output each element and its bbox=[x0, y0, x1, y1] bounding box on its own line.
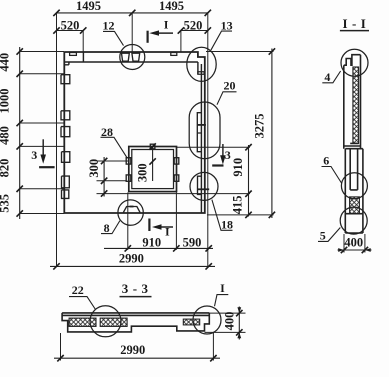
callout circle 13 bbox=[187, 47, 216, 81]
left edge notch 1 bbox=[61, 75, 70, 84]
callout circle 22 bbox=[90, 306, 121, 337]
dimension 3275 bbox=[253, 48, 276, 218]
svg-text:2990: 2990 bbox=[120, 343, 145, 357]
svg-text:28: 28 bbox=[101, 125, 113, 139]
dimension 520 right bbox=[178, 18, 211, 52]
dimension 910 590 bottom bbox=[104, 235, 213, 251]
callout circle 4 bbox=[341, 49, 368, 76]
dimension 300 inside opening bbox=[135, 143, 156, 182]
opening plate top bbox=[150, 144, 155, 149]
right dimension column 910 415 bbox=[231, 144, 252, 218]
extension row top right bbox=[206, 51, 274, 53]
svg-text:300: 300 bbox=[87, 159, 101, 178]
svg-text:I: I bbox=[164, 18, 169, 32]
svg-text:1495: 1495 bbox=[76, 0, 101, 13]
title I - I bbox=[340, 16, 369, 31]
label 18 bbox=[212, 200, 233, 232]
hatch block 3-3 left a bbox=[69, 318, 96, 326]
callout circle 6 bbox=[341, 173, 367, 199]
svg-text:400: 400 bbox=[223, 312, 237, 331]
extension row bottom right bbox=[207, 214, 274, 216]
label 20 bbox=[217, 79, 237, 105]
left edge notch 2 bbox=[61, 111, 70, 120]
svg-text:480: 480 bbox=[0, 126, 12, 145]
dimension 520 left bbox=[53, 18, 86, 52]
extension row long 193 bbox=[97, 193, 251, 195]
svg-text:3 - 3: 3 - 3 bbox=[122, 281, 149, 296]
section marker 3 left bbox=[31, 139, 54, 167]
bottom edge recess in detail 8 bbox=[123, 207, 140, 213]
svg-text:1000: 1000 bbox=[0, 89, 12, 114]
svg-text:520: 520 bbox=[61, 18, 80, 32]
corner plate top-right bbox=[198, 72, 204, 74]
extension opening right down bbox=[175, 193, 177, 250]
svg-text:8: 8 bbox=[104, 221, 110, 235]
dimension 400 section 3-3 bbox=[205, 307, 246, 340]
left edge notch 6 bbox=[62, 190, 69, 199]
dimension 300 left of opening bbox=[87, 157, 129, 197]
section marker I bottom bbox=[149, 219, 173, 239]
extension line mid top bbox=[131, 13, 133, 52]
svg-text:I: I bbox=[220, 281, 225, 295]
opening plate left upper bbox=[126, 158, 131, 164]
svg-text:520: 520 bbox=[184, 18, 203, 32]
label 13 bbox=[211, 19, 233, 51]
label 8 bbox=[101, 221, 120, 235]
svg-text:820: 820 bbox=[0, 159, 12, 178]
left dimension column 440 1000 480 820 535 bbox=[0, 47, 23, 219]
svg-text:590: 590 bbox=[183, 235, 202, 249]
callout circle 12 bbox=[120, 45, 145, 70]
callout circle 5 bbox=[340, 207, 367, 234]
svg-text:910: 910 bbox=[231, 158, 245, 177]
left extension rows bbox=[20, 52, 65, 214]
extension row 910 top bbox=[177, 146, 251, 148]
panel outline (plan) bbox=[64, 52, 205, 213]
svg-text:I - I: I - I bbox=[343, 16, 367, 31]
channel tick bold in detail 20 bbox=[197, 124, 206, 126]
left edge notch 4 bbox=[62, 152, 70, 163]
opening plate right upper bbox=[174, 158, 179, 164]
svg-text:22: 22 bbox=[72, 283, 84, 297]
svg-text:440: 440 bbox=[0, 53, 11, 72]
section marker 3 right bbox=[212, 144, 231, 166]
anchor plate a in detail 12 bbox=[122, 53, 130, 61]
svg-text:415: 415 bbox=[231, 196, 245, 215]
opening square outer bbox=[129, 147, 177, 192]
bottom recess nub bbox=[130, 206, 134, 208]
top edge plate left bbox=[70, 53, 77, 56]
dimension 2990 plan bbox=[50, 251, 215, 269]
dimension 1495 + 1495 top bbox=[53, 0, 211, 16]
dimension 400 I-I bbox=[338, 234, 372, 253]
anchor plate b in detail 12 bbox=[132, 53, 140, 61]
right edge channel in detail 20 bbox=[197, 113, 201, 152]
label I bottom right bbox=[215, 281, 229, 306]
svg-text:13: 13 bbox=[221, 19, 233, 33]
svg-text:18: 18 bbox=[221, 217, 233, 231]
extension line left vertical bbox=[56, 13, 58, 267]
right edge channel in detail 18 bbox=[198, 176, 202, 194]
insulation hatch strip I-I bbox=[353, 67, 359, 143]
title 3 - 3 bbox=[120, 281, 152, 297]
opening plate left lower bbox=[126, 175, 131, 181]
opening square inner bbox=[132, 150, 174, 189]
extension opening left down bbox=[127, 193, 129, 250]
callout circle 18 bbox=[190, 172, 218, 200]
svg-text:3: 3 bbox=[31, 148, 37, 162]
svg-text:400: 400 bbox=[344, 236, 363, 250]
svg-text:910: 910 bbox=[142, 235, 161, 249]
extension line right vertical bbox=[207, 13, 209, 267]
label 6 bbox=[322, 154, 342, 184]
svg-text:3: 3 bbox=[225, 148, 231, 162]
svg-text:535: 535 bbox=[0, 194, 12, 213]
svg-text:6: 6 bbox=[323, 154, 329, 168]
svg-text:3275: 3275 bbox=[253, 114, 267, 139]
callout stadium 20 bbox=[189, 102, 220, 159]
svg-text:I: I bbox=[165, 225, 170, 239]
svg-text:300: 300 bbox=[135, 163, 149, 182]
label 28 bbox=[101, 125, 128, 159]
panel right inner edge line bbox=[200, 64, 202, 213]
panel top inner edge line bbox=[64, 52, 198, 74]
channel tick bold in detail 18 bbox=[198, 188, 210, 190]
section I-I body bbox=[344, 55, 363, 233]
label 12 bbox=[103, 19, 124, 46]
svg-text:5: 5 bbox=[320, 229, 326, 243]
svg-text:12: 12 bbox=[103, 19, 115, 33]
label 22 bbox=[69, 283, 96, 310]
section 3-3 body bbox=[62, 313, 209, 332]
svg-text:2990: 2990 bbox=[119, 251, 144, 265]
left edge notch 3 bbox=[61, 127, 70, 137]
hatch block 3-3 right bbox=[183, 319, 199, 325]
svg-text:1495: 1495 bbox=[159, 0, 184, 13]
svg-text:20: 20 bbox=[224, 79, 236, 93]
svg-text:4: 4 bbox=[324, 70, 330, 84]
top edge plate right bbox=[171, 53, 177, 56]
left edge notch 5 bbox=[62, 176, 70, 188]
dimension 2990 section bbox=[54, 332, 220, 361]
callout circle I right bbox=[193, 306, 221, 334]
label 5 bbox=[318, 228, 340, 243]
callout circle 8 bbox=[118, 200, 143, 225]
section marker I top bbox=[148, 18, 173, 43]
label 4 bbox=[322, 70, 340, 84]
insulation hatch block I-I bbox=[350, 197, 360, 214]
hatch block 3-3 left b bbox=[100, 318, 127, 326]
opening plate right lower bbox=[174, 175, 179, 181]
